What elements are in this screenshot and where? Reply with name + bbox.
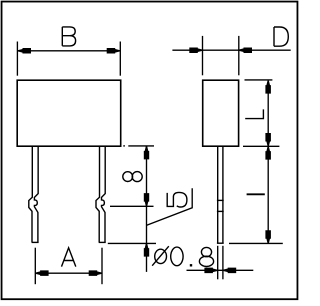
- dimension A extension lines: [35, 248, 102, 285]
- extension line at body top (L): [245, 79, 273, 81]
- dimension 5 arrow up (outside): [144, 244, 149, 257]
- lead (side view): [217, 147, 224, 243]
- label Ø0.8: [152, 246, 213, 266]
- dimension l arrow up: [265, 147, 271, 160]
- dimension A arrow left: [36, 270, 49, 276]
- dimension D arrow right (outside): [239, 48, 252, 54]
- dimension Ø0.8 arrow right (outside): [223, 268, 236, 274]
- diameter extension lines below lead: [218, 246, 223, 279]
- dimension L arrow up: [265, 81, 271, 94]
- dimension B extension lines: [17, 42, 120, 76]
- label 8 (rotated): [123, 172, 142, 182]
- dimension A arrow right: [89, 270, 102, 276]
- dimension D line: [172, 49, 290, 51]
- dimension 8 arrow down: [144, 193, 149, 206]
- extension line at body bottom (L/l): [243, 145, 279, 147]
- dimension B arrow right: [107, 48, 120, 54]
- dimension l arrow down: [265, 230, 271, 243]
- lead right (front view, with crimp): [96, 147, 106, 243]
- label D: [274, 27, 288, 46]
- label L (rotated): [245, 109, 263, 118]
- dimension A line: [35, 272, 102, 274]
- label B: [62, 27, 75, 46]
- dimension B arrow left: [18, 48, 31, 54]
- dimension D arrow left (outside): [189, 48, 202, 54]
- body side view (right figure box): [203, 80, 239, 146]
- dimension 8 arrow up: [144, 146, 149, 159]
- dimension L arrow down: [265, 133, 271, 146]
- label l (rotated): [247, 193, 265, 195]
- dimension line for 8 and 5: [146, 147, 148, 272]
- dimension Ø0.8 arrow left (outside): [204, 268, 217, 274]
- dimension D extension lines: [203, 36, 239, 75]
- label 5 (rotated): [167, 192, 187, 207]
- body front view (left figure box): [17, 80, 121, 146]
- dimension line Ø0.8: [187, 269, 254, 271]
- centerline dash-dot at box bottom: [123, 145, 125, 147]
- leader for 5: [147, 188, 193, 225]
- label A: [62, 248, 76, 267]
- dimension B line: [17, 50, 120, 52]
- extension line at lead end level: [108, 242, 156, 244]
- extension line at crimp level: [110, 205, 154, 207]
- lead left (front view, with crimp): [29, 147, 39, 243]
- dimension line for L and l: [267, 81, 269, 243]
- extension line at lead end (l): [229, 242, 283, 244]
